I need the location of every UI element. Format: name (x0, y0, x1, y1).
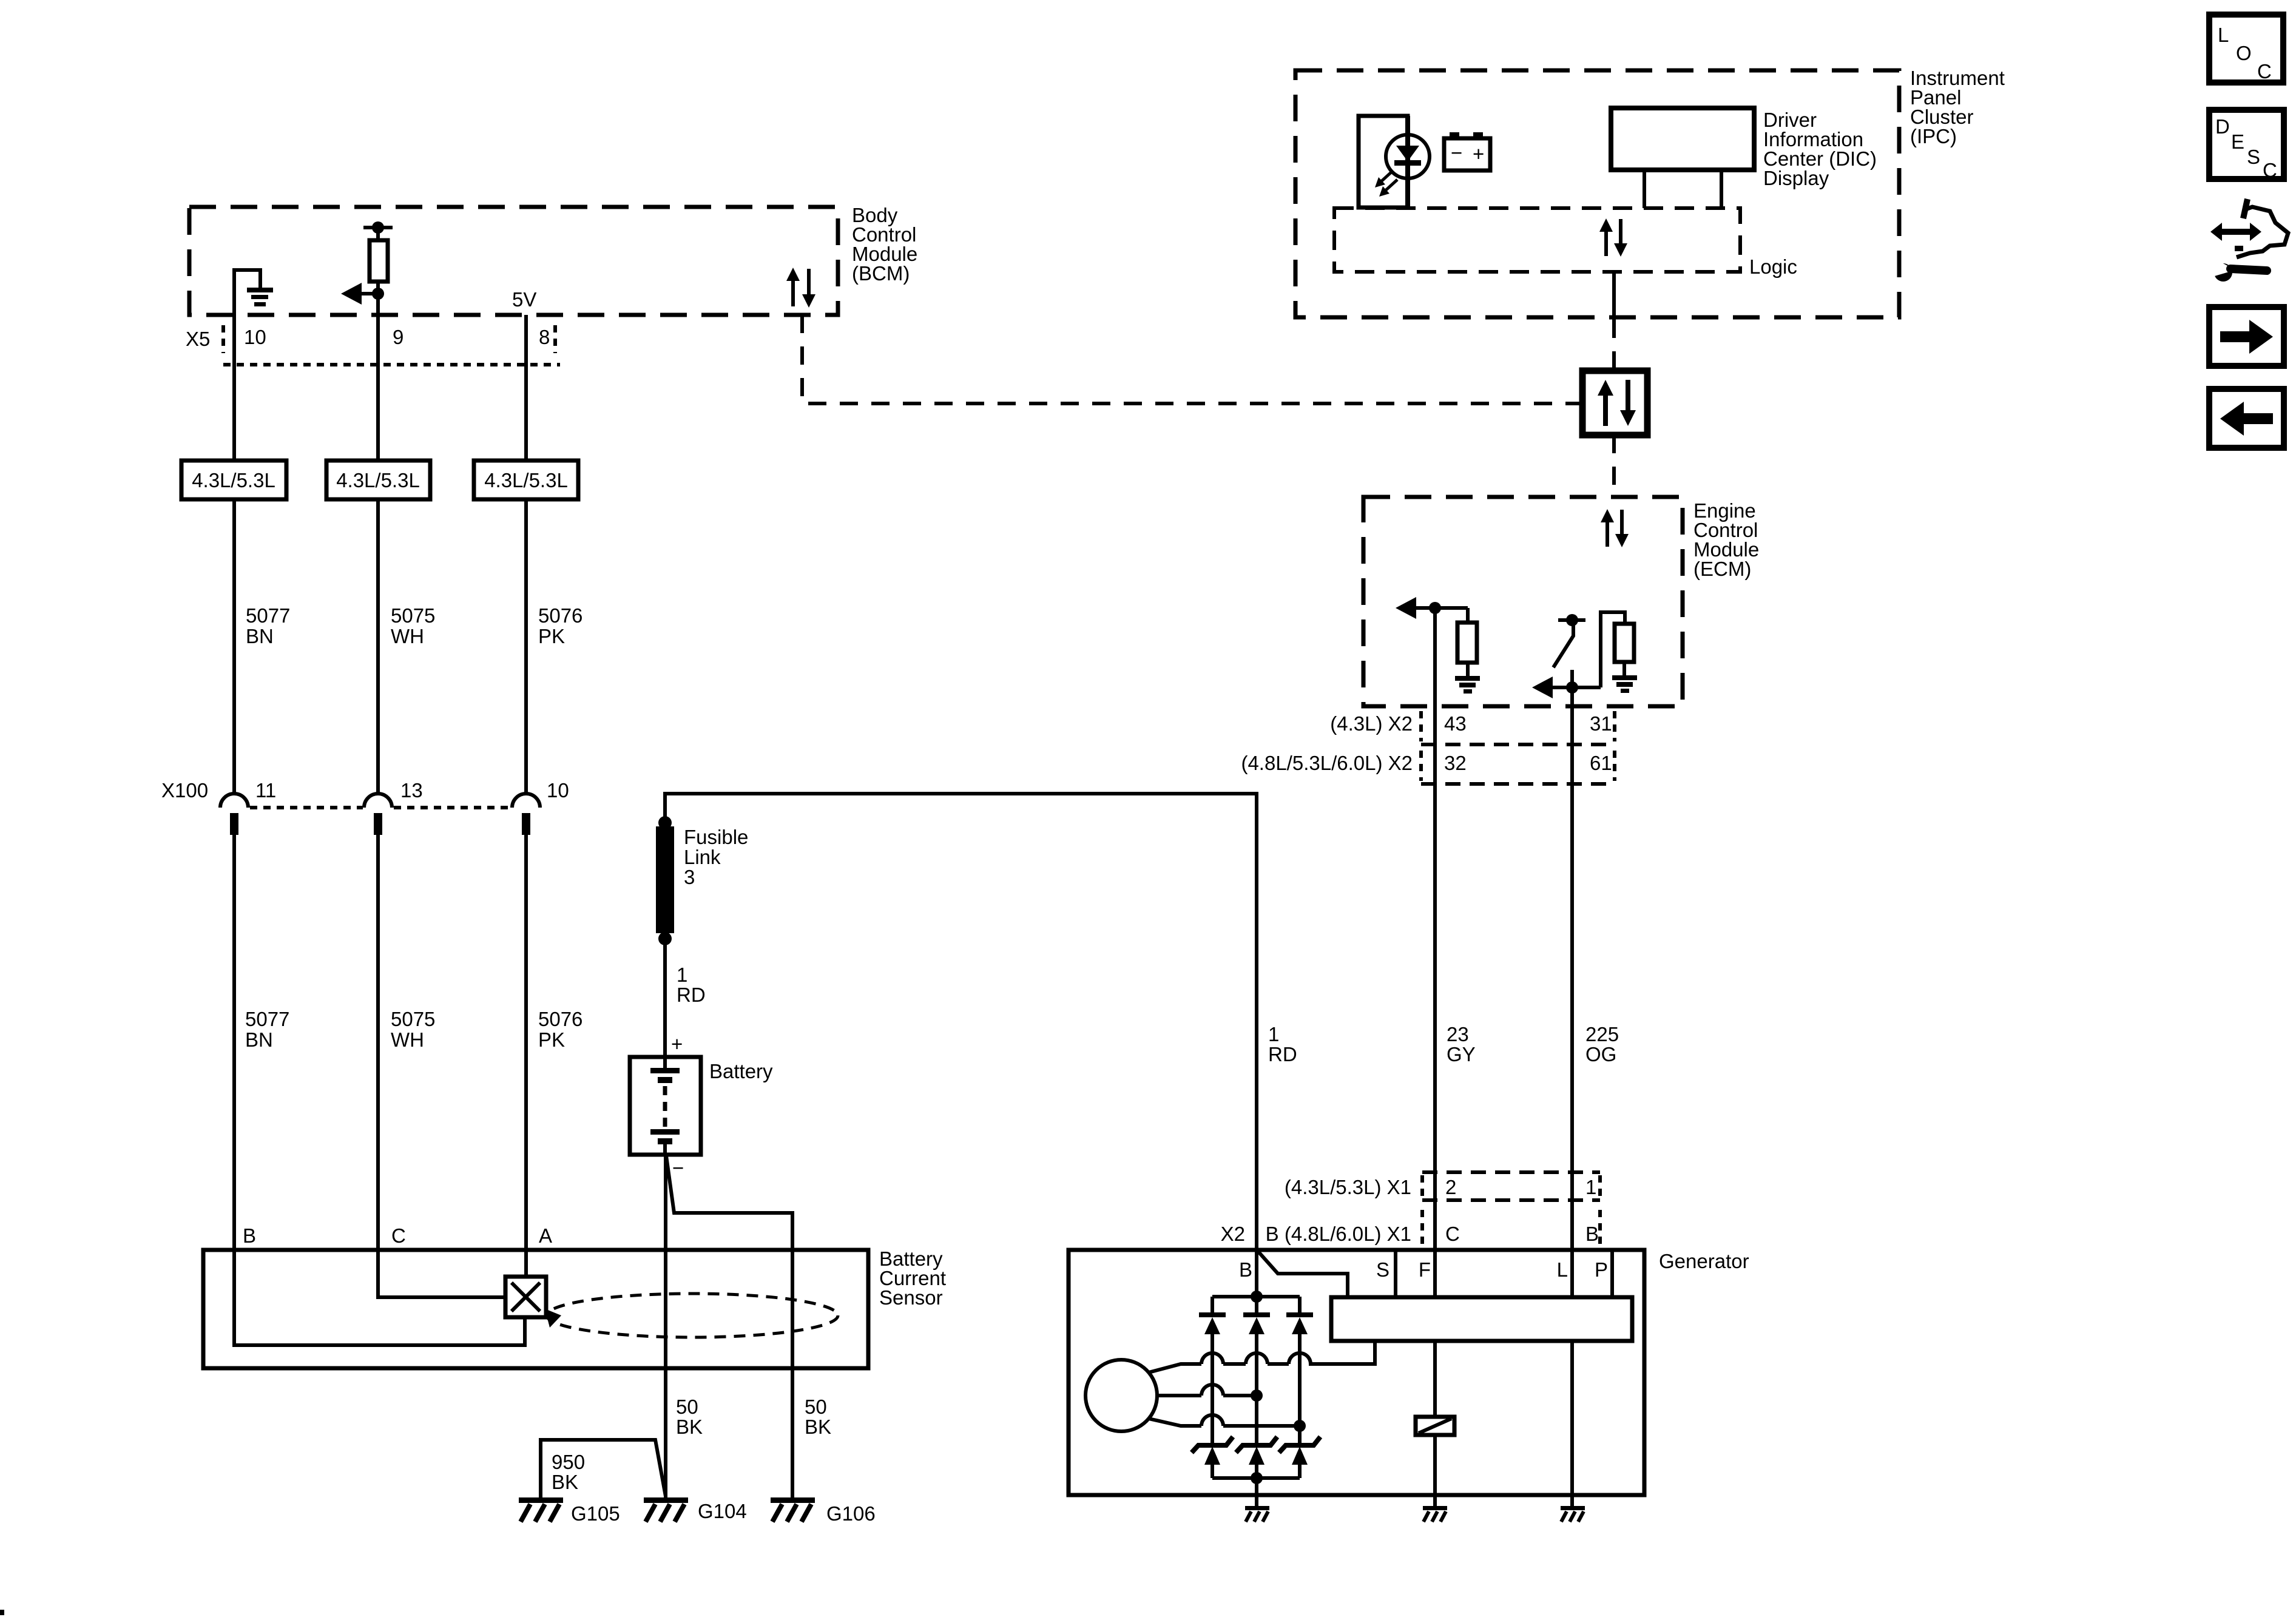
serial data dashed wire to gateway box (1612, 320, 1616, 371)
svg-text:B (4.8L/6.0L) X1: B (4.8L/6.0L) X1 (1266, 1223, 1411, 1245)
svg-text:31: 31 (1590, 712, 1612, 735)
svg-text:1: 1 (677, 964, 687, 986)
generator ground (L) (1561, 1506, 1585, 1522)
engine option box 4.3L/5.3L (left) (181, 461, 286, 499)
LOC legend box (2209, 15, 2283, 83)
svg-text:8: 8 (539, 326, 550, 348)
svg-text:B: B (1585, 1223, 1599, 1245)
diagnostic hand and wrench icon (2210, 199, 2288, 282)
wire 50 BK (G104) label (676, 1396, 703, 1438)
Body Control Module (BCM) dashed box (189, 204, 917, 315)
svg-text:(BCM): (BCM) (852, 262, 910, 285)
battery (630, 1057, 773, 1155)
Engine Control Module (ECM) dashed box (1363, 497, 1759, 706)
svg-text:3: 3 (684, 866, 695, 888)
svg-text:RD: RD (1268, 1043, 1297, 1065)
ECM lower arrow (L circuit) (1532, 677, 1601, 698)
generator F wire into regulator (1433, 1250, 1437, 1297)
BCM internal signal arrow at pin 9 (341, 283, 384, 305)
rectifier bottom rail (1212, 1472, 1300, 1507)
stator phase winding 2 (1157, 1385, 1263, 1402)
generator S stub (1394, 1250, 1397, 1297)
svg-text:−: − (672, 1156, 684, 1179)
ECM pull-up resistor (left) (1457, 608, 1477, 677)
ECM connector X2 row 1 (4.3L) (1330, 711, 1615, 744)
svg-text:X5: X5 (186, 328, 210, 350)
generator L wire to ground (1570, 1341, 1574, 1507)
rectifier diode column 1 (positive diode) (1199, 1297, 1226, 1444)
svg-text:5077: 5077 (245, 1008, 289, 1030)
svg-text:4.3L/5.3L: 4.3L/5.3L (192, 469, 275, 491)
logic serial arrows (1599, 218, 1627, 257)
svg-text:4.3L/5.3L: 4.3L/5.3L (336, 469, 420, 491)
generator L wire into regulator (1570, 1250, 1574, 1297)
rectifier diode column 3 (positive diode) (1286, 1297, 1313, 1444)
ground G106 (771, 1497, 876, 1525)
avalanche diode column 1 (1192, 1437, 1233, 1478)
svg-text:23: 23 (1447, 1023, 1469, 1045)
back arrow legend box (2209, 389, 2284, 448)
ECM internal ground (left) (1455, 676, 1480, 694)
svg-text:43: 43 (1444, 712, 1467, 735)
svg-text:50: 50 (805, 1396, 827, 1418)
stator rotor circle (1086, 1360, 1157, 1431)
sensor internal wire A (524, 1250, 528, 1277)
ECM pull-up resistor (right) (1615, 624, 1634, 675)
Generator box (1069, 1250, 1749, 1495)
svg-text:O: O (2236, 42, 2252, 64)
svg-text:Logic: Logic (1749, 255, 1797, 278)
BCM internal resistor (pin 9 circuit) (363, 221, 393, 317)
svg-text:G104: G104 (698, 1500, 747, 1522)
serial data dashed wire from BCM (802, 315, 1582, 403)
svg-text:32: 32 (1444, 752, 1467, 774)
wire 23 GY (1435, 608, 1476, 1297)
svg-text:BK: BK (805, 1416, 831, 1438)
svg-text:950: 950 (552, 1451, 585, 1473)
generator field coil (1416, 1341, 1454, 1507)
regulator phase sense wire (1309, 1341, 1375, 1364)
ECM internal ground (right) (1612, 675, 1637, 693)
battery icon in IPC (1444, 132, 1490, 170)
svg-text:L: L (1557, 1258, 1568, 1281)
wire 225 OG (1572, 687, 1619, 1297)
svg-text:1: 1 (1585, 1176, 1596, 1198)
BCM serial data arrows (786, 268, 815, 308)
svg-text:G106: G106 (826, 1502, 876, 1525)
wire 5077 BN upper segment (232, 315, 236, 461)
engine option box 4.3L/5.3L (middle) (326, 461, 430, 499)
serial data wire from logic to IPC edge (1612, 272, 1616, 320)
svg-text:(4.3L/5.3L) X1: (4.3L/5.3L) X1 (1285, 1176, 1411, 1198)
wire 5077 BN to X100 (234, 499, 290, 794)
sensor internal wire B (234, 1250, 525, 1345)
svg-text:−: − (1451, 141, 1462, 164)
svg-text:WH: WH (391, 625, 424, 647)
battery negative jog wire to G106 (666, 1156, 792, 1499)
wire 50 BK (G106) label (805, 1396, 831, 1438)
wire 5076 PK to X100 (526, 499, 582, 794)
svg-text:E: E (2231, 130, 2244, 153)
svg-text:X2: X2 (1221, 1223, 1245, 1245)
svg-text:BK: BK (552, 1471, 578, 1493)
connector X5 row (186, 325, 560, 365)
svg-text:OG: OG (1585, 1043, 1616, 1065)
svg-text:225: 225 (1585, 1023, 1619, 1045)
svg-text:(IPC): (IPC) (1910, 125, 1957, 147)
generator B wire to rectifier (1255, 1172, 1258, 1297)
svg-text:C: C (2257, 60, 2272, 83)
svg-text:4.3L/5.3L: 4.3L/5.3L (484, 469, 568, 491)
Driver Information Center (DIC) Display (1611, 108, 1877, 208)
svg-text:X100: X100 (161, 779, 208, 802)
generator ground (rectifier) (1245, 1506, 1269, 1522)
DESC legend box (2209, 110, 2284, 181)
ground G104 (644, 1497, 747, 1522)
svg-text:GY: GY (1447, 1043, 1476, 1065)
svg-text:11: 11 (255, 779, 276, 802)
forward arrow legend box (2209, 307, 2284, 366)
svg-text:5076: 5076 (538, 604, 582, 627)
svg-text:WH: WH (391, 1028, 424, 1051)
svg-text:(4.3L) X2: (4.3L) X2 (1330, 712, 1413, 735)
svg-text:+: + (671, 1033, 683, 1055)
battery negative wire to G104 (664, 1155, 667, 1499)
generator connector X1 row 1 (4.3L/5.3L) (1285, 1172, 1600, 1200)
connector X100 row (161, 779, 569, 835)
svg-text:PK: PK (538, 1028, 565, 1051)
svg-text:L: L (2218, 24, 2229, 46)
rectifier top rail (1212, 1291, 1300, 1303)
wire 5075 WH lower segment (378, 835, 435, 1252)
svg-text:(ECM): (ECM) (1693, 558, 1751, 580)
svg-text:2: 2 (1445, 1176, 1456, 1198)
svg-text:C: C (391, 1224, 406, 1247)
Battery Current Sensor box (203, 1247, 946, 1368)
sensor internal wire C (378, 1250, 504, 1297)
svg-text:Battery: Battery (709, 1060, 773, 1082)
ECM connector X2 row 2 (4.8L/5.3L/6.0L) (1241, 751, 1615, 784)
stator phase winding 1 (1149, 1353, 1375, 1372)
wire 5076 PK lower segment (526, 835, 582, 1252)
engine option box 4.3L/5.3L (right) (474, 461, 578, 499)
avalanche diode column 2 (1236, 1437, 1277, 1478)
wire 5077 BN lower segment (234, 835, 289, 1252)
svg-text:G105: G105 (571, 1502, 620, 1525)
sensor terminal letters B C A (243, 1224, 552, 1247)
svg-text:C: C (1445, 1223, 1460, 1245)
page corner mark (0, 1610, 4, 1615)
svg-text:RD: RD (677, 984, 706, 1006)
ECM sense driver arrow (pin 43/32 circuit) (1396, 597, 1468, 619)
svg-text:61: 61 (1590, 752, 1612, 774)
svg-text:PK: PK (538, 625, 565, 647)
svg-text:50: 50 (676, 1396, 698, 1418)
svg-text:5076: 5076 (538, 1008, 582, 1030)
svg-text:13: 13 (400, 779, 423, 802)
generator connector X2/X1 row 2 (4.8L/6.0L) (1221, 1210, 1600, 1245)
fusible link 3 (656, 816, 748, 945)
svg-text:S: S (1376, 1258, 1389, 1281)
svg-text:+: + (1473, 143, 1484, 165)
sensor dashed loop ellipse (545, 1294, 838, 1337)
wire 5075 WH to X100 (378, 499, 435, 794)
ground G105 (519, 1497, 620, 1525)
voltage regulator (1331, 1297, 1632, 1341)
svg-text:5075: 5075 (391, 1008, 435, 1030)
svg-text:P: P (1595, 1258, 1608, 1281)
rectifier diode column 2 (positive diode) (1243, 1297, 1270, 1444)
sensor element X-box (505, 1277, 546, 1317)
svg-text:BN: BN (246, 625, 274, 647)
generator ground (field) (1423, 1506, 1447, 1522)
serial data gateway box (1582, 371, 1647, 435)
svg-text:1: 1 (1268, 1023, 1279, 1045)
serial data dashed wire gateway to ECM (1612, 435, 1616, 499)
ECM resistor (right) wiring (1601, 612, 1625, 687)
wire 5076 PK upper segment (524, 315, 528, 461)
svg-text:Display: Display (1763, 167, 1829, 189)
svg-text:F: F (1419, 1258, 1431, 1281)
LED light arrows (1375, 170, 1397, 197)
wire 5075 WH upper segment (376, 315, 380, 461)
Logic dashed box (1334, 208, 1797, 278)
generator B branch to regulator (1258, 1251, 1348, 1297)
Instrument Panel Cluster (IPC) dashed box (1295, 67, 2005, 317)
svg-text:A: A (539, 1224, 552, 1247)
svg-text:S: S (2247, 146, 2260, 168)
generator P stub (1610, 1250, 1614, 1297)
svg-text:BN: BN (245, 1028, 273, 1051)
svg-text:(4.8L/5.3L/6.0L) X2: (4.8L/5.3L/6.0L) X2 (1241, 752, 1413, 774)
svg-text:D: D (2215, 115, 2230, 138)
generator terminal letters (1239, 1258, 1608, 1281)
svg-text:10: 10 (244, 326, 266, 348)
charge indicator frame (1359, 116, 1408, 208)
svg-text:Link: Link (684, 846, 721, 868)
svg-text:5V: 5V (512, 288, 536, 311)
svg-text:C: C (2263, 159, 2277, 181)
svg-text:BK: BK (676, 1416, 703, 1438)
svg-text:Sensor: Sensor (879, 1286, 943, 1309)
ECM serial arrows (1601, 509, 1629, 547)
BCM internal ground (pin 10 circuit) (234, 270, 273, 317)
svg-text:5077: 5077 (246, 604, 290, 627)
svg-text:B: B (243, 1224, 256, 1247)
svg-text:9: 9 (393, 326, 403, 348)
wire 1 RD battery feed rail (665, 794, 1257, 1172)
svg-text:Generator: Generator (1659, 1250, 1749, 1272)
svg-text:10: 10 (547, 779, 569, 802)
charge indicator LED lamp (1386, 116, 1430, 208)
svg-text:5075: 5075 (391, 604, 435, 627)
svg-text:B: B (1239, 1258, 1252, 1281)
wire 1 RD label (right) (1268, 1023, 1297, 1065)
ECM switch (L-terminal driver) (1553, 614, 1585, 687)
stator phase winding 3 (1149, 1415, 1306, 1432)
avalanche diode column 3 (1279, 1437, 1320, 1478)
svg-text:Fusible: Fusible (684, 826, 748, 848)
wire 950 BK to G105 (541, 1440, 666, 1499)
